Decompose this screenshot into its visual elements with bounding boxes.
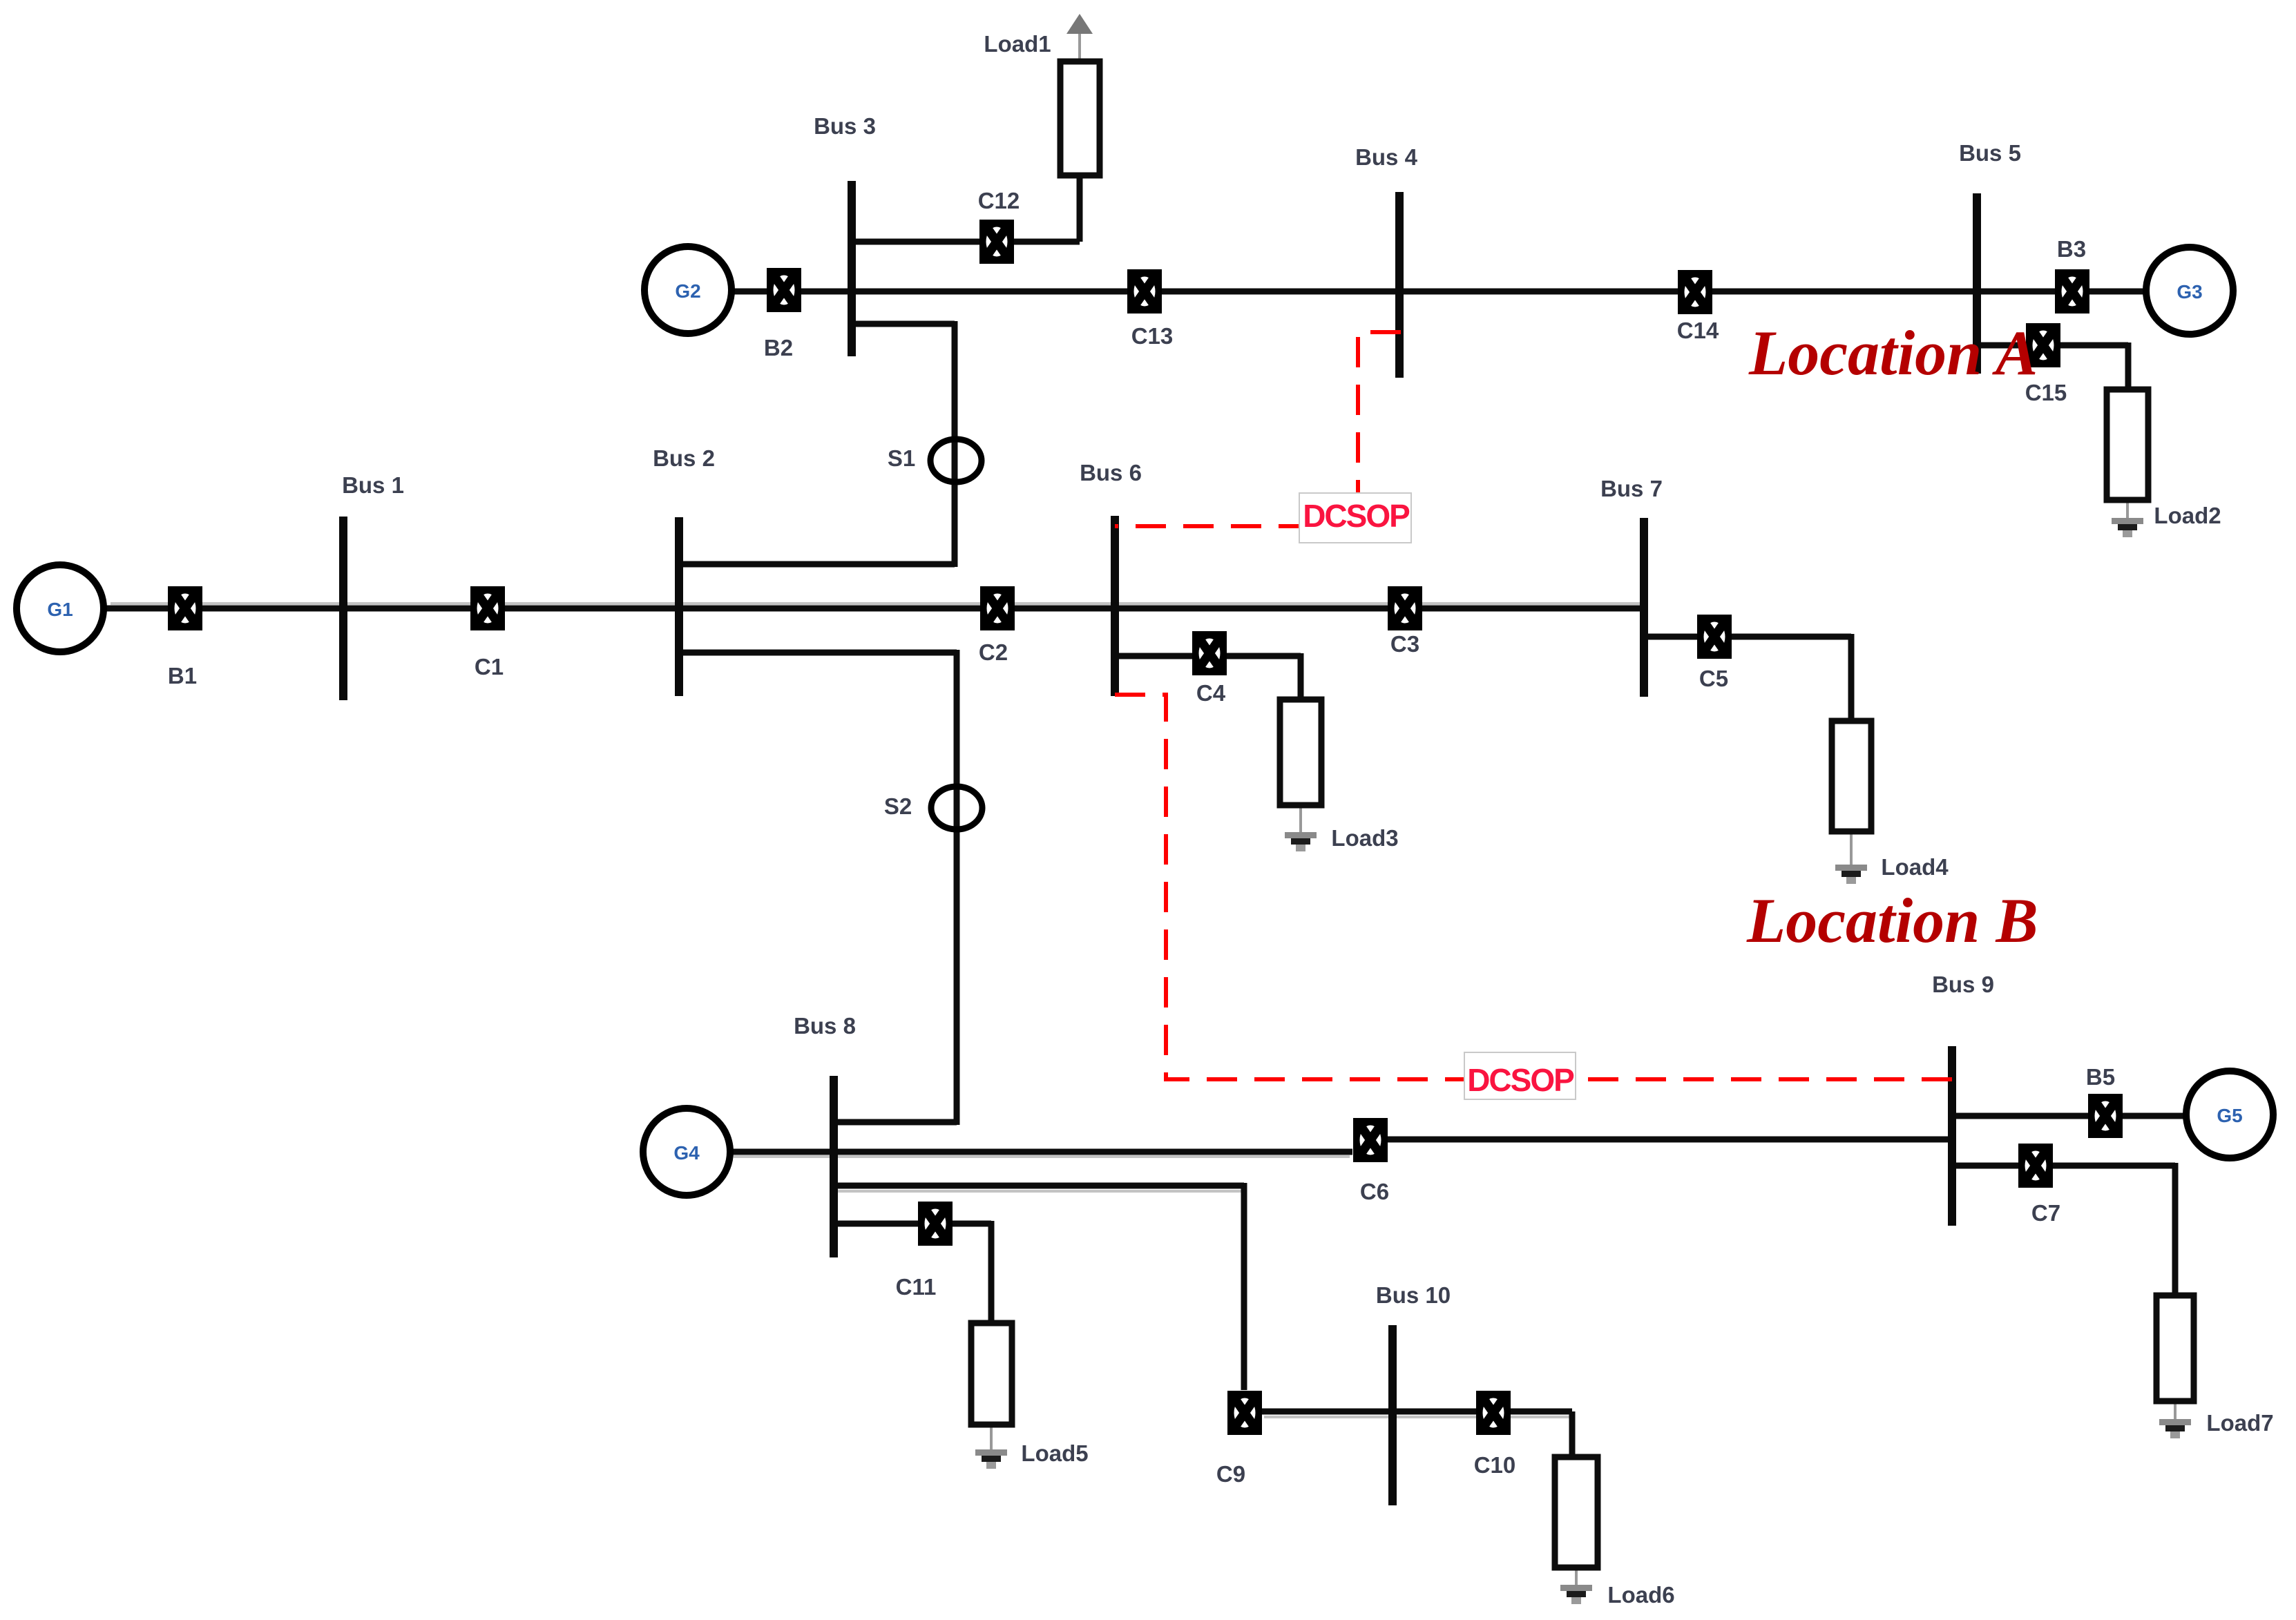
svg-text:Bus 9: Bus 9 — [1932, 972, 1994, 997]
svg-text:C2: C2 — [979, 639, 1008, 665]
svg-text:G5: G5 — [2217, 1105, 2242, 1126]
svg-text:Bus 6: Bus 6 — [1080, 460, 1142, 485]
svg-text:S1: S1 — [888, 445, 915, 471]
svg-text:C4: C4 — [1196, 680, 1226, 706]
svg-text:Load1: Load1 — [984, 31, 1051, 57]
svg-text:G2: G2 — [675, 280, 700, 302]
svg-text:Bus 4: Bus 4 — [1355, 144, 1418, 170]
svg-text:C12: C12 — [978, 188, 1020, 213]
svg-text:C11: C11 — [896, 1274, 937, 1300]
svg-text:Load5: Load5 — [1021, 1440, 1088, 1466]
svg-text:Bus 8: Bus 8 — [794, 1013, 856, 1039]
svg-text:Location A: Location A — [1748, 318, 2038, 388]
svg-text:Load6: Load6 — [1607, 1582, 1674, 1608]
svg-text:C3: C3 — [1390, 631, 1419, 657]
svg-text:G1: G1 — [47, 599, 73, 620]
svg-text:G4: G4 — [673, 1142, 700, 1164]
svg-text:C9: C9 — [1216, 1461, 1245, 1487]
svg-text:Bus 10: Bus 10 — [1376, 1282, 1451, 1308]
svg-text:Bus 7: Bus 7 — [1600, 476, 1663, 501]
svg-text:C1: C1 — [475, 654, 504, 679]
svg-text:DCSOP: DCSOP — [1303, 498, 1410, 534]
svg-text:Bus 2: Bus 2 — [653, 445, 715, 471]
svg-text:B5: B5 — [2086, 1064, 2115, 1090]
svg-text:C5: C5 — [1699, 666, 1728, 691]
svg-text:Bus 1: Bus 1 — [342, 472, 404, 498]
svg-text:C14: C14 — [1677, 318, 1719, 343]
svg-text:C10: C10 — [1474, 1452, 1516, 1478]
svg-text:B3: B3 — [2057, 236, 2086, 262]
svg-text:Bus 5: Bus 5 — [1959, 140, 2021, 166]
svg-text:S2: S2 — [884, 793, 912, 819]
svg-text:C6: C6 — [1360, 1179, 1389, 1204]
svg-text:C13: C13 — [1131, 323, 1174, 349]
svg-text:DCSOP: DCSOP — [1467, 1062, 1574, 1098]
svg-text:Load3: Load3 — [1331, 825, 1398, 851]
svg-text:Load2: Load2 — [2154, 503, 2221, 528]
svg-text:Load4: Load4 — [1881, 854, 1949, 880]
svg-text:B1: B1 — [168, 663, 197, 688]
svg-text:Load7: Load7 — [2206, 1410, 2273, 1436]
svg-text:B2: B2 — [764, 335, 793, 360]
svg-text:G3: G3 — [2177, 281, 2202, 302]
svg-text:Bus 3: Bus 3 — [814, 113, 876, 139]
svg-text:Location B: Location B — [1746, 885, 2038, 956]
svg-text:C7: C7 — [2031, 1200, 2060, 1226]
